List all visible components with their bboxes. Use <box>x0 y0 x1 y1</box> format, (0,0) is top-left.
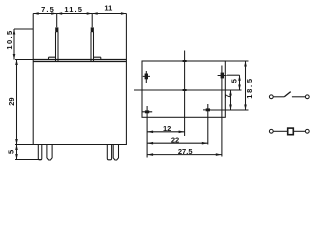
dim 12 line <box>147 131 185 133</box>
coil symbol left lead <box>273 130 288 132</box>
arrow 7.5 left <box>33 12 39 15</box>
arrow 11 right <box>121 12 127 15</box>
bottom pin 1 <box>38 145 42 160</box>
dim 5 right line <box>239 75 241 90</box>
contact symbol right lead <box>292 96 306 98</box>
terminal tab 1 cap <box>55 27 58 32</box>
terminal tab 2 foot <box>94 57 101 59</box>
arrow 5 top <box>15 145 18 151</box>
right extension: pin C row <box>227 74 240 76</box>
coil symbol box <box>288 128 294 135</box>
body top seam line B <box>33 61 126 63</box>
arrow 29 top <box>15 60 18 66</box>
pin A (top-left) <box>145 74 148 80</box>
dim line 11 <box>92 13 126 15</box>
dim line 5 <box>16 145 18 160</box>
arrow 7.5 right / 11.5 left <box>51 12 57 15</box>
bottom view vertical centreline <box>184 51 186 137</box>
right extension: rect top row <box>225 60 248 62</box>
dim 22 line <box>147 142 208 144</box>
contact symbol right circle <box>305 95 309 99</box>
svg-text:11.5: 11.5 <box>64 5 83 14</box>
right extension: pin D row <box>211 109 249 111</box>
svg-text:29: 29 <box>7 97 16 105</box>
dim line 10.5 <box>13 29 15 60</box>
dim 5 bottom extension lines <box>15 145 41 160</box>
contact symbol blade <box>284 92 290 97</box>
svg-text:11: 11 <box>104 4 112 13</box>
pin C (top-right) <box>221 73 224 79</box>
coil symbol right lead <box>293 130 305 132</box>
terminal tab 2 <box>91 32 94 62</box>
contact symbol left circle <box>269 95 273 99</box>
terminal tab 1 foot <box>49 57 56 59</box>
pin D (bottom-right) <box>206 108 210 111</box>
centre cross mid <box>183 89 187 91</box>
svg-text:27.5: 27.5 <box>178 147 193 156</box>
arrow 5 bottom <box>15 154 18 160</box>
terminal tab 2 cap <box>91 27 94 32</box>
dim line 11.5 <box>57 13 92 15</box>
body top edge line A <box>33 59 126 61</box>
dim 7 right line <box>230 90 232 110</box>
terminal tab 1 <box>56 32 59 62</box>
svg-text:5: 5 <box>230 79 239 83</box>
dim 7.5 extension line tab1 <box>56 14 58 28</box>
bottom view outline <box>142 61 225 117</box>
arrow 11.5 right / 11 left <box>87 12 93 15</box>
dim 11 extension line body right <box>125 14 127 60</box>
dim 27.5 line <box>147 154 222 156</box>
dim 10.5 top extension line <box>14 28 33 30</box>
relay body front view outline <box>33 60 126 145</box>
arrow 10.5 top <box>13 29 16 35</box>
arrow 29 bottom <box>15 139 18 145</box>
coil symbol left circle <box>269 129 273 133</box>
svg-text:18.5: 18.5 <box>245 77 254 98</box>
svg-text:12: 12 <box>163 124 171 133</box>
bottom view horizontal centreline <box>134 89 242 91</box>
dim 18.5 right line <box>245 61 247 110</box>
svg-text:7.5: 7.5 <box>41 5 55 14</box>
svg-text:5: 5 <box>7 150 16 154</box>
dim 11.5 extension line tab2 <box>91 14 93 28</box>
dim 7.5 extension line body left <box>32 14 34 60</box>
bottom pin 3 <box>107 145 111 160</box>
bottom pin 2 <box>47 145 52 161</box>
svg-text:10.5: 10.5 <box>5 29 14 49</box>
bottom pin 4 <box>113 145 118 161</box>
centre cross top <box>183 60 187 62</box>
pin B (bottom-left) <box>145 110 149 113</box>
arrow 10.5 bottom <box>13 54 16 60</box>
dim line 29 <box>16 60 18 145</box>
dim line 7.5 <box>33 13 57 15</box>
coil symbol right circle <box>305 129 309 133</box>
dim 29 top extension line <box>15 59 33 61</box>
svg-text:22: 22 <box>171 135 179 144</box>
svg-text:7: 7 <box>223 94 232 98</box>
contact symbol left lead <box>273 96 284 98</box>
